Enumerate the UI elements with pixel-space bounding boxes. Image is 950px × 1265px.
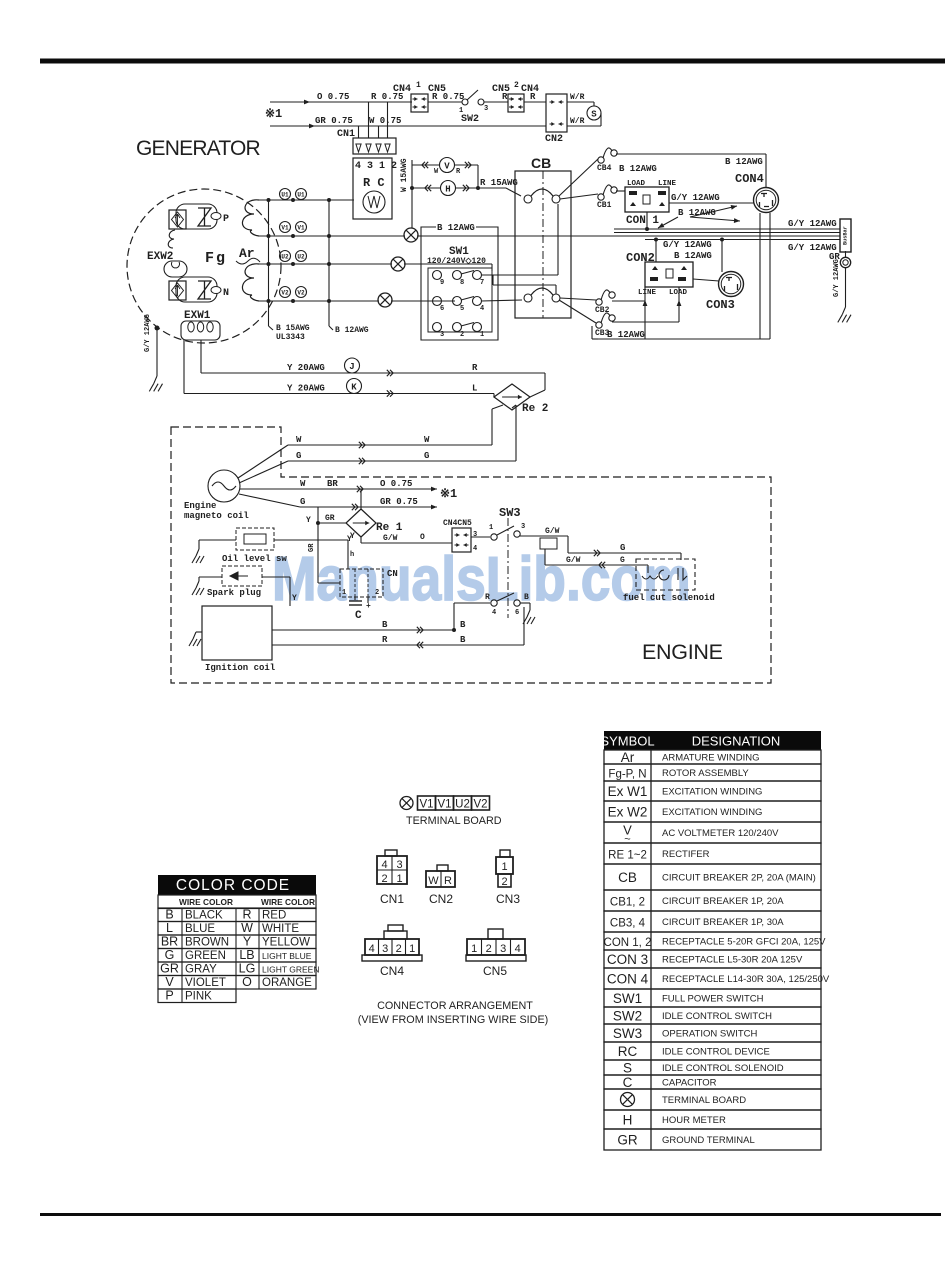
svg-text:CN1: CN1 (337, 129, 355, 140)
wires Re2 down to W/G rows (491, 409, 493, 445)
svg-text:magneto coil: magneto coil (184, 511, 249, 521)
svg-text:6: 6 (440, 305, 444, 313)
svg-text:C: C (355, 610, 362, 622)
svg-text:R: R (382, 635, 388, 645)
vertical bus B15AWG (268, 200, 270, 326)
svg-text:LOAD: LOAD (627, 180, 646, 188)
svg-text:V: V (165, 975, 174, 989)
svg-text:S: S (623, 1061, 632, 1076)
svg-text:V2: V2 (281, 290, 289, 297)
svg-text:V2: V2 (473, 799, 487, 811)
svg-text:+: + (366, 602, 371, 611)
svg-text:CB1, 2: CB1, 2 (610, 897, 645, 909)
svg-text:B 12AWG: B 12AWG (725, 157, 763, 167)
svg-text:B 12AWG: B 12AWG (607, 330, 645, 340)
wire R to CN2 (524, 101, 546, 103)
svg-text:4: 4 (480, 305, 484, 313)
svg-text:120/240V◇120: 120/240V◇120 (427, 257, 486, 266)
svg-text:CONNECTOR ARRANGEMENT: CONNECTOR ARRANGEMENT (377, 1000, 533, 1012)
svg-text:GR: GR (617, 1133, 638, 1148)
wire from EXW1 to J (200, 340, 202, 373)
svg-text:1: 1 (396, 873, 402, 885)
circuit breaker CB3 (596, 322, 602, 328)
svg-text:L: L (472, 384, 477, 394)
wire CB to CB4 (559, 159, 598, 196)
color code row V (158, 976, 316, 990)
wire spark to coil (262, 576, 290, 578)
svg-text:J: J (349, 362, 354, 372)
svg-text:V2: V2 (297, 290, 305, 297)
symbol table row RECTIFER (604, 843, 821, 864)
svg-text:1: 1 (409, 943, 415, 955)
svg-text:GRAY: GRAY (185, 964, 217, 976)
symbol table row CIRCUIT BREAKER 1P, 20A (604, 890, 821, 911)
svg-text:RECEPTACLE L14-30R 30A, 125/2: RECEPTACLE L14-30R 30A, 125/250V (662, 974, 830, 985)
wire CB to CB3 (559, 300, 596, 323)
svg-text:WHITE: WHITE (262, 923, 299, 935)
svg-text:W/R: W/R (570, 117, 585, 126)
svg-text:BusBar: BusBar (843, 226, 849, 245)
svg-text:S: S (591, 110, 597, 120)
EXW2 coil loops top (168, 230, 175, 248)
svg-text:U1: U1 (297, 192, 305, 199)
svg-text:CN5: CN5 (492, 84, 510, 95)
ground ignition coil (196, 631, 202, 633)
svg-text:P: P (223, 214, 229, 225)
svg-text:CIRCUIT BREAKER 1P, 20A: CIRCUIT BREAKER 1P, 20A (662, 896, 784, 907)
color code row P (158, 989, 236, 1003)
bottom return wire B12AWG (598, 338, 770, 340)
wire CB2 to CON2 (612, 300, 645, 302)
svg-text:B: B (460, 635, 466, 645)
symbol table row RECEPTACLE 5-20R GFCI 20A, 125V (604, 932, 821, 950)
bus wires G/Y to busbar (614, 228, 840, 230)
svg-text:G/W: G/W (383, 534, 398, 543)
svg-text:Re 2: Re 2 (522, 403, 548, 415)
svg-text:Ex W2: Ex W2 (608, 805, 648, 820)
wire row U2 (258, 263, 392, 265)
svg-text:RE 1~2: RE 1~2 (608, 850, 647, 862)
connector CN5/CN4 pair 2 (484, 101, 508, 103)
svg-text:IDLE CONTROL SWITCH: IDLE CONTROL SWITCH (662, 1011, 772, 1022)
svg-text:CN4CN5: CN4CN5 (443, 519, 472, 528)
wire R0.75 to SW2 (428, 101, 462, 103)
svg-text:Spark plug: Spark plug (207, 588, 261, 598)
svg-text:U2: U2 (297, 254, 305, 261)
svg-text:W/R: W/R (570, 93, 585, 102)
svg-text:RC: RC (618, 1044, 638, 1059)
svg-text:3: 3 (521, 523, 525, 531)
svg-text:(VIEW FROM INSERTING WIRE SIDE: (VIEW FROM INSERTING WIRE SIDE) (358, 1014, 549, 1026)
armature coil upper (242, 200, 259, 236)
svg-text:CN4: CN4 (393, 84, 411, 95)
wire CB4 to CON4 (616, 153, 766, 155)
circuit breaker CB box (515, 171, 571, 318)
color code row L (158, 922, 316, 936)
svg-text:B 12AWG: B 12AWG (437, 223, 475, 233)
svg-text:GENERATOR: GENERATOR (136, 137, 261, 160)
svg-text:ORANGE: ORANGE (262, 977, 312, 989)
svg-text:G/Y 12AWG: G/Y 12AWG (833, 259, 841, 297)
terminal board post 2 (391, 257, 405, 271)
vertical bus B12AWG (328, 200, 330, 326)
svg-text:3: 3 (500, 943, 506, 955)
svg-text:U2: U2 (455, 799, 470, 811)
ground wire G/Y from rotor (155, 326, 160, 331)
svg-text:TERMINAL BOARD: TERMINAL BOARD (406, 815, 502, 827)
svg-text:G/W: G/W (545, 527, 560, 536)
node P (211, 213, 221, 220)
symbol table row CIRCUIT BREAKER 2P, 20A (MAIN) (604, 864, 821, 890)
wire row J (201, 372, 545, 374)
rotor P branch loop (176, 204, 217, 229)
rectifier diode block N (169, 281, 186, 300)
svg-text:3: 3 (484, 105, 488, 113)
svg-text:SW2: SW2 (613, 1009, 642, 1024)
svg-text:B 15AWG: B 15AWG (276, 324, 310, 333)
wire CB to CB2 (560, 298, 596, 300)
symbol table row HOUR METER (604, 1110, 821, 1129)
svg-text:1: 1 (480, 331, 484, 339)
svg-text:CN2: CN2 (545, 134, 563, 145)
wire CON4 down legs (759, 213, 761, 339)
svg-text:V1: V1 (419, 799, 433, 811)
wire W/R lower to S (567, 125, 601, 127)
wire CON1 to CON4 (669, 202, 754, 204)
wire G/W right of SW3 (520, 535, 568, 537)
svg-text:W: W (428, 875, 439, 887)
symbol table row CIRCUIT BREAKER 1P, 30A (604, 911, 821, 932)
fan wires from magneto (238, 445, 288, 478)
wire W 15AWG vertical (411, 160, 413, 228)
svg-text:※1: ※1 (265, 107, 282, 121)
svg-text:2: 2 (375, 589, 379, 597)
svg-text:ARMATURE WINDING: ARMATURE WINDING (662, 753, 759, 764)
CB pole top (524, 195, 532, 203)
svg-text:W: W (300, 479, 306, 489)
svg-text:7: 7 (480, 279, 484, 287)
svg-text:4 3 1 2: 4 3 1 2 (355, 161, 397, 172)
oil level switch (236, 528, 274, 550)
svg-text:CN4: CN4 (380, 964, 404, 978)
SW1 contact row 987 (433, 271, 442, 280)
svg-text:4: 4 (473, 545, 477, 553)
svg-text:CN5: CN5 (483, 964, 507, 978)
svg-text:8: 8 (460, 279, 464, 287)
svg-text:GREEN: GREEN (185, 950, 226, 962)
svg-text:O: O (242, 975, 252, 989)
svg-text:6: 6 (515, 609, 519, 617)
svg-text:G: G (620, 543, 625, 553)
engine dashed box (171, 427, 771, 683)
rotor N branch loop (176, 277, 217, 302)
SW3 top contacts (471, 536, 490, 538)
svg-text:W: W (424, 435, 430, 445)
symbol table row EXCITATION WINDING (604, 801, 821, 822)
ignition coil (202, 606, 272, 660)
full power switch SW1 box (421, 227, 498, 340)
svg-text:1: 1 (416, 81, 421, 90)
wire CON2 top drop (655, 240, 657, 263)
wire from EXW1 to K (183, 340, 185, 394)
svg-text:EXW1: EXW1 (184, 310, 211, 322)
svg-text:O 0.75: O 0.75 (380, 479, 412, 489)
svg-text:ENGINE: ENGINE (642, 640, 723, 664)
svg-text:h: h (350, 551, 354, 559)
svg-text:PINK: PINK (185, 991, 212, 1003)
node V2 terminals (280, 287, 291, 298)
wire row K (184, 393, 494, 395)
svg-text:Y: Y (243, 935, 252, 949)
svg-text:TERMINAL BOARD: TERMINAL BOARD (662, 1095, 746, 1106)
symbol table row FULL POWER SWITCH (604, 989, 821, 1007)
svg-text:G: G (296, 451, 301, 461)
svg-text:Fg-P, N: Fg-P, N (608, 769, 646, 781)
svg-text:B 12AWG: B 12AWG (674, 251, 712, 261)
svg-text:B: B (524, 593, 529, 602)
wire G/Y to ground (845, 268, 847, 307)
wire B row from ignition coil (272, 629, 454, 631)
svg-text:1: 1 (489, 524, 493, 532)
Z symbol N (198, 281, 211, 299)
svg-text:CN: CN (387, 569, 398, 579)
connector CN1 legend (377, 856, 407, 884)
svg-text:R 15AWG: R 15AWG (480, 178, 518, 188)
wire G/W from Re1 (360, 537, 362, 543)
svg-text:W 0.75: W 0.75 (369, 116, 401, 126)
symbol designation table (604, 731, 821, 750)
svg-text:Y 20AWG: Y 20AWG (287, 384, 325, 394)
svg-text:4: 4 (492, 609, 496, 617)
node U1 terminals (280, 189, 291, 200)
svg-text:GR: GR (160, 962, 179, 976)
SW1 inner contact box (428, 268, 492, 332)
svg-text:VIOLET: VIOLET (185, 977, 226, 989)
wire O0.75 top row (270, 101, 412, 103)
svg-text:B 12AWG: B 12AWG (619, 164, 657, 174)
svg-text:~: ~ (624, 834, 630, 846)
wire W/R to solenoid S (567, 101, 594, 103)
wire R row from ignition coil (272, 644, 524, 646)
svg-text:BLACK: BLACK (185, 910, 223, 922)
symbol table row IDLE CONTROL SWITCH (604, 1007, 821, 1024)
svg-text:G/Y 12AWG: G/Y 12AWG (788, 219, 837, 229)
svg-text:CB: CB (618, 870, 637, 885)
svg-text:RECTIFER: RECTIFER (662, 849, 710, 860)
svg-text:SW1: SW1 (613, 991, 642, 1006)
node K (347, 379, 362, 394)
svg-text:IDLE CONTROL SOLENOID: IDLE CONTROL SOLENOID (662, 1063, 784, 1074)
symbol table row RECEPTACLE L5-30R 20A 125V (604, 950, 821, 968)
connector CN4 legend (365, 939, 419, 955)
wire R 15AWG to CB (478, 187, 506, 189)
circuit breaker CB4 (598, 157, 604, 163)
svg-text:EXCITATION WINDING: EXCITATION WINDING (662, 787, 762, 798)
svg-text:5: 5 (460, 305, 464, 313)
symbol table row ROTOR ASSEMBLY (604, 764, 821, 781)
svg-text:Y: Y (292, 594, 297, 603)
idle control solenoid S (587, 106, 601, 120)
svg-text:N: N (223, 288, 229, 299)
svg-text:CN3: CN3 (496, 892, 520, 906)
svg-text:U1: U1 (281, 192, 289, 199)
svg-text:YELLOW: YELLOW (262, 937, 310, 949)
wire CON2 to CON3 (693, 279, 719, 281)
svg-text:W: W (241, 921, 253, 935)
color code table (158, 875, 316, 895)
symbol table row AC VOLTMETER 120/240V (604, 822, 821, 843)
svg-text:EXCITATION WINDING: EXCITATION WINDING (662, 807, 762, 818)
symbol table row GROUND TERMINAL (604, 1129, 821, 1150)
wire CN to GR line (318, 582, 340, 584)
svg-text:R: R (530, 92, 536, 102)
wires from CN1 pins up to rows (358, 126, 360, 138)
connector CN1 (353, 138, 396, 154)
svg-text:R: R (485, 593, 490, 602)
svg-text:V: V (444, 162, 450, 172)
svg-text:V1: V1 (437, 799, 451, 811)
svg-text:2: 2 (501, 876, 507, 888)
rotor assembly Fg circle (127, 189, 281, 343)
svg-text:2: 2 (514, 81, 519, 90)
color code row BR (158, 935, 316, 949)
svg-text:ROTOR ASSEMBLY: ROTOR ASSEMBLY (662, 768, 749, 779)
ground for spark plug (199, 576, 222, 578)
wire G/W row to solenoid (545, 564, 648, 566)
bus bar (840, 219, 851, 252)
svg-text:BR: BR (161, 935, 178, 949)
svg-text:W: W (296, 435, 302, 445)
hour meter H (412, 187, 478, 189)
svg-text:UL3343: UL3343 (276, 333, 305, 342)
svg-text:1: 1 (471, 943, 477, 955)
svg-text:4: 4 (515, 943, 521, 955)
rectifier diode block P (169, 210, 186, 229)
svg-text:OPERATION SWITCH: OPERATION SWITCH (662, 1029, 757, 1040)
svg-text:2: 2 (381, 873, 387, 885)
svg-text:CN2: CN2 (429, 892, 453, 906)
idle control device RC (353, 158, 392, 219)
svg-text:RECEPTACLE 5-20R GFCI 20A, 1: RECEPTACLE 5-20R GFCI 20A, 125V (662, 937, 826, 948)
wire CB3 to CON2 load (612, 321, 679, 323)
wire to ground right of SW3 (520, 602, 530, 604)
terminal board post 3 (378, 293, 392, 307)
svg-text:GR 0.75: GR 0.75 (380, 497, 418, 507)
terminal board post 1 (404, 228, 418, 242)
svg-text:H: H (623, 1113, 633, 1128)
color code row G (158, 949, 316, 963)
svg-text:W 15AWG: W 15AWG (400, 158, 409, 192)
svg-text:※1: ※1 (440, 487, 457, 501)
receptacle CON1 (GFCI) (625, 187, 669, 212)
svg-text:V1: V1 (281, 225, 289, 232)
color code row B (158, 908, 316, 922)
svg-text:R: R (444, 875, 452, 887)
svg-text:R: R (472, 363, 478, 373)
svg-text:RED: RED (262, 910, 286, 922)
terminal board legend (400, 797, 413, 810)
svg-text:Y 20AWG: Y 20AWG (287, 363, 325, 373)
wire SW1 contact7 to CB top pole (481, 274, 558, 276)
circuit breaker CB2 (596, 299, 602, 305)
svg-text:GR: GR (325, 514, 335, 523)
AC voltmeter V (412, 164, 478, 166)
symbol table row TERMINAL BOARD (604, 1089, 821, 1110)
svg-text:Y: Y (306, 516, 311, 525)
svg-text:SW2: SW2 (461, 114, 479, 125)
svg-text:B: B (165, 908, 173, 922)
svg-text:G: G (424, 451, 429, 461)
svg-text:G: G (165, 948, 175, 962)
svg-text:DESIGNATION: DESIGNATION (692, 734, 781, 749)
wire CON3 up (721, 240, 723, 273)
symbol table row IDLE CONTROL SOLENOID (604, 1060, 821, 1075)
rectifier Re1 (346, 509, 376, 537)
svg-text:CB4: CB4 (597, 164, 612, 173)
spark plug (222, 566, 262, 586)
svg-text:LIGHT BLUE: LIGHT BLUE (262, 951, 312, 961)
svg-text:U2: U2 (281, 254, 289, 261)
svg-text:CON 4: CON 4 (607, 972, 649, 987)
svg-text:3: 3 (396, 859, 402, 871)
svg-text:Re 1: Re 1 (376, 522, 403, 534)
svg-text:GROUND TERMINAL: GROUND TERMINAL (662, 1135, 755, 1146)
connector CN engine dashed (340, 569, 383, 597)
svg-text:SYMBOL: SYMBOL (600, 734, 654, 749)
svg-text:fuel cut solenoid: fuel cut solenoid (623, 593, 715, 603)
svg-text:Ignition coil: Ignition coil (205, 663, 276, 673)
svg-text:HOUR METER: HOUR METER (662, 1115, 726, 1126)
svg-text:1: 1 (342, 589, 346, 597)
svg-text:CON4: CON4 (735, 172, 764, 186)
svg-text:K: K (351, 383, 357, 393)
svg-text:RECEPTACLE L5-30R 20A 125V: RECEPTACLE L5-30R 20A 125V (662, 955, 803, 966)
svg-text:CON 1: CON 1 (626, 215, 659, 227)
svg-text:B: B (460, 620, 466, 630)
capacitor C (354, 597, 356, 600)
svg-text:9: 9 (440, 279, 444, 287)
svg-text:B: B (382, 620, 388, 630)
CB pole bottom (524, 294, 532, 302)
svg-text:LINE: LINE (658, 180, 677, 188)
junction box near SW3 (540, 538, 557, 549)
svg-text:BLUE: BLUE (185, 923, 215, 935)
svg-text:O: O (420, 533, 425, 542)
symbol table row CAPACITOR (604, 1075, 821, 1089)
svg-text:Fg: Fg (205, 250, 227, 267)
switch SW2 (462, 99, 468, 105)
receptacle CON3 (L5-30R) (719, 272, 744, 297)
connector CN4CN5 engine (452, 528, 471, 552)
top rule bar (40, 59, 945, 64)
wire CB1 to CON1 (616, 190, 625, 192)
svg-text:2: 2 (486, 943, 492, 955)
svg-text:COLOR CODE: COLOR CODE (176, 877, 290, 894)
svg-text:Y: Y (350, 532, 355, 541)
symbol table row OPERATION SWITCH (604, 1024, 821, 1042)
svg-text:LOAD: LOAD (669, 289, 688, 297)
svg-text:GR: GR (308, 543, 316, 552)
svg-text:GR 0.75: GR 0.75 (315, 116, 353, 126)
svg-text:CON3: CON3 (706, 298, 735, 312)
symbol table row ARMATURE WINDING (604, 750, 821, 764)
bottom rule bar (40, 1213, 941, 1216)
svg-text:L: L (166, 921, 173, 935)
svg-text:BROWN: BROWN (185, 937, 229, 949)
svg-text:CN1: CN1 (380, 892, 404, 906)
svg-text:2: 2 (396, 943, 402, 955)
svg-text:4: 4 (381, 859, 387, 871)
